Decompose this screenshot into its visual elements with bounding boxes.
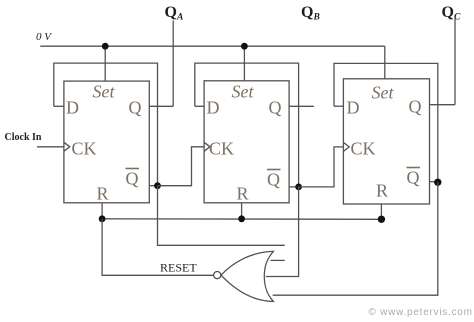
wire U1 Qbar-to-D feedback loop — [54, 63, 158, 186]
svg-text:D: D — [66, 98, 79, 118]
wire U1 Qbar to gate input A — [158, 186, 285, 246]
nor-gate G1 output bubble — [214, 272, 221, 279]
wire Clock In lead — [37, 146, 64, 148]
wire U3 Q pin — [430, 104, 456, 106]
wire Set2 pull-up — [243, 46, 245, 81]
wire U2 Q pin — [289, 105, 314, 107]
wire QC stub — [454, 19, 456, 105]
wire U1 Q pin — [149, 105, 173, 107]
wire QA stub — [172, 21, 174, 107]
clock edge wedge U1 — [64, 142, 70, 151]
wire U2 Qbar to U3 CK — [299, 147, 344, 187]
wire U2 Qbar-to-D feedback loop — [195, 63, 299, 187]
node J1 0V/Set1 junction — [102, 43, 109, 50]
wire U1 Qbar to U2 CK — [158, 147, 205, 186]
wire U2 D pin — [195, 105, 204, 107]
wire U2 Qbar pin — [289, 186, 298, 188]
flip-flop U1 box — [64, 81, 149, 203]
nor-gate G1 body — [221, 251, 273, 301]
svg-text:© www.petervis.com: © www.petervis.com — [369, 307, 473, 318]
svg-text:Set: Set — [93, 82, 116, 102]
svg-text:CK: CK — [351, 139, 376, 159]
svg-text:RESET: RESET — [160, 261, 197, 275]
clock edge wedge U2 — [204, 142, 210, 151]
node J4 U2 Qbar junction — [295, 184, 302, 191]
wire U3 Qbar pin — [430, 181, 438, 183]
wire U3 R pin — [380, 204, 382, 219]
clock edge wedge U3 — [343, 142, 349, 151]
wire U1 R pin — [101, 203, 103, 219]
node J8 reset/U3 R — [378, 216, 385, 223]
svg-text:Q: Q — [267, 170, 280, 190]
svg-text:R: R — [376, 181, 388, 201]
wire Set1 pull-up — [104, 46, 106, 81]
wire U1 D pin — [54, 105, 64, 107]
svg-text:CK: CK — [72, 139, 97, 159]
svg-text:R: R — [97, 184, 109, 204]
svg-text:D: D — [347, 98, 360, 118]
node J6 reset/U1 R — [99, 215, 106, 222]
svg-text:0 V: 0 V — [36, 31, 52, 43]
svg-text:Clock In: Clock In — [5, 132, 42, 143]
wire reset bus — [102, 218, 381, 221]
label U1 Qbar overline — [126, 168, 140, 170]
wire gate output to reset bus — [102, 219, 213, 275]
flip-flop U3 box — [343, 79, 429, 204]
node J2 0V/Set2 junction — [241, 43, 248, 50]
svg-text:R: R — [237, 184, 249, 204]
svg-text:QB: QB — [301, 4, 320, 23]
svg-text:QA: QA — [165, 4, 184, 23]
label U3 Qbar overline — [407, 167, 421, 169]
wire U3 D pin — [334, 105, 343, 107]
node J5 U3 Qbar junction — [434, 179, 441, 186]
wire U1 Qbar pin — [149, 185, 157, 187]
svg-text:Q: Q — [129, 98, 142, 118]
svg-text:D: D — [207, 98, 220, 118]
node J7 reset/U2 R — [238, 215, 245, 222]
svg-text:Q: Q — [409, 97, 422, 117]
wire 0V rail — [40, 45, 385, 47]
wire U3 Qbar-to-D feedback loop — [334, 63, 438, 182]
svg-text:Q: Q — [407, 168, 420, 188]
svg-text:Q: Q — [126, 169, 139, 189]
svg-text:Set: Set — [372, 83, 395, 103]
wire gate input C — [273, 182, 438, 295]
svg-text:Set: Set — [232, 82, 255, 102]
svg-text:CK: CK — [209, 139, 234, 159]
wire gate input A stub — [271, 259, 285, 261]
flip-flop U2 box — [204, 81, 289, 203]
wire Set3 pull-up — [384, 46, 386, 79]
node J3 U1 Qbar junction — [154, 182, 161, 189]
wire U2 R pin — [241, 203, 243, 219]
label U2 Qbar overline — [267, 169, 281, 171]
svg-text:QC: QC — [442, 4, 461, 23]
wire gate input B — [266, 187, 299, 277]
svg-text:Q: Q — [269, 98, 282, 118]
